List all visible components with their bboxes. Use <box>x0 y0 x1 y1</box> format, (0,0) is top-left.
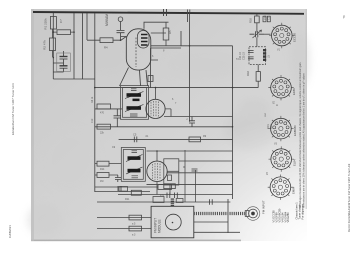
valve V2 grid hatch <box>151 101 159 117</box>
schematic top border <box>33 12 304 14</box>
resistor R4 horizontal aerial <box>87 37 126 43</box>
svg-text:EABC80: EABC80 <box>293 125 297 136</box>
socket B2 center <box>279 86 283 90</box>
valve V1 cathode dashed <box>135 38 137 68</box>
capacitor C8 below left <box>115 175 121 182</box>
T1 cap bottom <box>130 114 138 116</box>
T3 caps left inside <box>248 51 254 59</box>
screened cable vertical to module <box>171 199 174 207</box>
socket B5 pins <box>268 175 293 200</box>
capacitor C5 on y139.4 <box>134 137 137 143</box>
svg-text:osc: osc <box>264 112 267 117</box>
socket B1 center <box>280 33 284 37</box>
wire y45.8 long <box>151 45 233 47</box>
V3 wire right <box>167 170 179 172</box>
svg-text:100v: 100v <box>271 123 273 129</box>
V1 wires right <box>151 31 182 88</box>
svg-text:R5: R5 <box>168 30 172 34</box>
resistor R19 below T3 <box>256 65 260 88</box>
module drum center dot <box>172 222 174 224</box>
svg-text:C7: C7 <box>59 19 63 23</box>
V2 anode wire up <box>155 88 157 100</box>
valve socket B2 <box>271 77 292 98</box>
wire y151 <box>147 150 233 152</box>
capacitor C12 on y202 <box>210 199 213 205</box>
V3 anode wire up <box>156 151 158 161</box>
FM INPUT coax connector <box>245 207 260 221</box>
svg-text:ECC85: ECC85 <box>293 33 297 42</box>
svg-text:MODULE: MODULE <box>158 219 162 233</box>
socket B3 pins <box>268 116 293 141</box>
valve V3 circle <box>147 161 167 181</box>
wire y228.5 module left <box>97 228 151 230</box>
bus line x82.5 <box>82 13 84 79</box>
IF transformer T2 box (V3 stage) <box>121 148 145 182</box>
V1 funnel to IF1 <box>120 68 148 87</box>
wire V3 bottom drop <box>157 182 170 195</box>
capacitor C1 electrolytic left <box>60 51 68 63</box>
bottom rail y79 <box>53 78 95 80</box>
svg-text:FM INPUT: FM INPUT <box>262 200 266 214</box>
aerial terminal <box>118 17 123 22</box>
svg-text:R2 47k: R2 47k <box>43 40 47 50</box>
socket B4 pins <box>269 146 294 171</box>
paper right edge shading <box>306 9 308 209</box>
capacitor C10 <box>118 186 121 191</box>
capacitor C9 <box>192 169 198 171</box>
valve socket B3 <box>271 118 292 139</box>
resistor R2 vertical left <box>50 29 56 57</box>
resistor R5 anode <box>163 28 169 46</box>
bus line x53 <box>52 13 54 79</box>
capacitor C6 between y116 y126 <box>189 117 195 127</box>
wire y172.8 <box>167 172 233 174</box>
verticals right of V3 <box>185 150 196 202</box>
small resistor R6 on x150 <box>148 76 153 82</box>
bus line x189.5 <box>189 13 191 121</box>
svg-text:1M: 1M <box>100 180 103 183</box>
paper bottom shadow edge <box>31 240 241 242</box>
top right stage: resistor R18 vertical <box>255 14 260 33</box>
wire trimmer to socket <box>264 33 271 35</box>
svg-text:All resistances are in ohms 10: All resistances are in ohms 10% toleranc… <box>303 72 306 208</box>
wire y202 <box>97 201 230 203</box>
socket B4 center <box>279 157 283 161</box>
wire y184.6 <box>147 184 233 186</box>
svg-text:R14: R14 <box>100 168 105 171</box>
svg-text:R21: R21 <box>125 198 130 201</box>
svg-text:C21: C21 <box>268 15 271 20</box>
resistor R10 inside <box>168 175 172 181</box>
resistor R8 on y126.8 <box>97 124 111 129</box>
svg-text:470: 470 <box>160 194 165 197</box>
capacitor C4 below <box>114 109 122 127</box>
svg-text:V6 EZ80: V6 EZ80 <box>286 212 290 223</box>
T2 cap bottom <box>132 176 139 178</box>
svg-text:200v: 200v <box>268 123 270 129</box>
svg-text:EL84: EL84 <box>293 159 297 166</box>
socket B3 center <box>279 127 283 131</box>
valve V3 grid hatch <box>153 163 161 180</box>
wire module right y222 <box>194 221 228 223</box>
valve V2 circle <box>146 99 165 118</box>
resistor R16 module left upper <box>129 215 142 220</box>
chassis note block <box>295 202 305 220</box>
wire y194.5 <box>118 194 233 196</box>
valve V1 anode loop top <box>144 22 169 33</box>
screen box around C1 C2 <box>57 53 71 72</box>
resistor R9 on y139.4 <box>189 137 201 142</box>
screen box right of V3 <box>164 159 179 185</box>
svg-text:EM84: EM84 <box>292 186 296 194</box>
resistor R11 below box <box>164 184 176 189</box>
T1 coil 1 <box>125 92 144 99</box>
T2 cap top <box>132 151 138 153</box>
svg-text:Elizabethan FM Tuner 1967 Tune: Elizabethan FM Tuner 1967 Tuner Unit <box>11 83 15 135</box>
wire y87.5 long <box>95 87 258 89</box>
svg-text:MW/AM: MW/AM <box>105 14 109 26</box>
bus line x228 lower <box>227 199 229 233</box>
wire T3 top <box>256 37 258 47</box>
svg-text:R4: R4 <box>104 46 108 50</box>
svg-text:C12: C12 <box>91 118 94 123</box>
valve V1 envelope <box>126 29 151 70</box>
T1 core bar <box>133 99 140 102</box>
capacitor on top rail <box>164 9 167 16</box>
IF transformer T1 box (V2 stage) <box>121 86 149 120</box>
T2 coil 1 <box>126 155 143 162</box>
bus line x87 <box>86 13 88 40</box>
wire y191.5 <box>95 191 150 193</box>
capacitor C3 aerial <box>117 22 125 41</box>
valve V1 grid wire in <box>121 36 126 38</box>
svg-text:For alignment: For alignment <box>301 203 305 219</box>
socket B1 pins <box>269 23 294 48</box>
wire y161 <box>179 160 233 162</box>
V2 wire right <box>165 109 171 117</box>
screened cable horizontal to connector <box>194 212 246 215</box>
svg-text:C5: C5 <box>133 133 137 137</box>
module drum circle <box>165 214 181 230</box>
small box above module left <box>153 197 164 203</box>
capacitor C11 pair <box>167 193 177 199</box>
svg-text:470: 470 <box>100 112 105 115</box>
T1 coil 2 <box>125 105 144 112</box>
valve list block <box>272 208 291 222</box>
bus line x74 <box>73 13 75 79</box>
paper sheet <box>31 9 307 241</box>
capacitor C2 electrolytic left <box>53 63 67 72</box>
valve V1 inner electrode <box>138 31 150 49</box>
resistor R3 horizontal left <box>53 30 74 35</box>
svg-text:R: R <box>183 166 185 169</box>
wire y217.5 module left <box>97 217 151 219</box>
socket B5 center <box>278 185 282 189</box>
wire module right y232.3 <box>194 231 240 233</box>
bus line x232.5 <box>232 46 234 199</box>
resistor R14 <box>131 190 141 195</box>
valve socket B4 <box>271 149 292 170</box>
svg-text:R16: R16 <box>249 18 253 23</box>
misc tiny value labels <box>91 49 239 201</box>
T3 coil winding right <box>263 49 266 61</box>
valve socket B5 <box>270 177 291 198</box>
svg-text:EF89: EF89 <box>292 88 296 95</box>
label near socket B3 left <box>268 123 273 129</box>
resistor R7 left of T1 <box>97 104 111 109</box>
wire y139.4 <box>119 138 233 140</box>
wire y126.8 <box>95 126 233 128</box>
resistor R15 <box>158 185 172 190</box>
T1 cap top <box>131 89 137 91</box>
wire y116.5 <box>164 116 233 118</box>
bus stub x187.5 <box>188 10 190 23</box>
svg-text:R18: R18 <box>246 71 250 76</box>
socket B2 pins <box>268 75 293 100</box>
valve socket B1 <box>272 25 293 46</box>
T2 coil 2 <box>126 167 143 174</box>
resistor R13 left lower <box>95 173 118 178</box>
bus line x95 <box>94 13 96 192</box>
svg-text:11/08/2021: 11/08/2021 <box>8 225 12 238</box>
wire y108.9 <box>95 108 122 110</box>
small box component <box>119 187 128 192</box>
small box above module right <box>176 199 183 203</box>
svg-text:R1 220k: R1 220k <box>44 18 48 30</box>
IF transformer T3 dashed box <box>249 47 266 65</box>
paper left edge shading <box>31 9 34 241</box>
resistor R12 left of V3 <box>95 161 122 166</box>
FM input module box <box>151 206 194 238</box>
svg-text:C25 10: C25 10 <box>243 52 246 60</box>
wire y187 <box>95 186 158 188</box>
trimmer capacitor CT1 <box>250 30 265 38</box>
resistor R17 module left lower <box>129 226 142 231</box>
junction dots <box>53 31 234 152</box>
svg-text:R8 1k: R8 1k <box>91 96 94 103</box>
small caps top right <box>263 16 270 22</box>
resistor R1 vertical top-left <box>50 17 56 30</box>
svg-text:Re:UC:FixOofMaUneFMTuner FM Tu: Re:UC:FixOofMaUneFMTuner FM Tuner 1967 T… <box>347 163 351 232</box>
